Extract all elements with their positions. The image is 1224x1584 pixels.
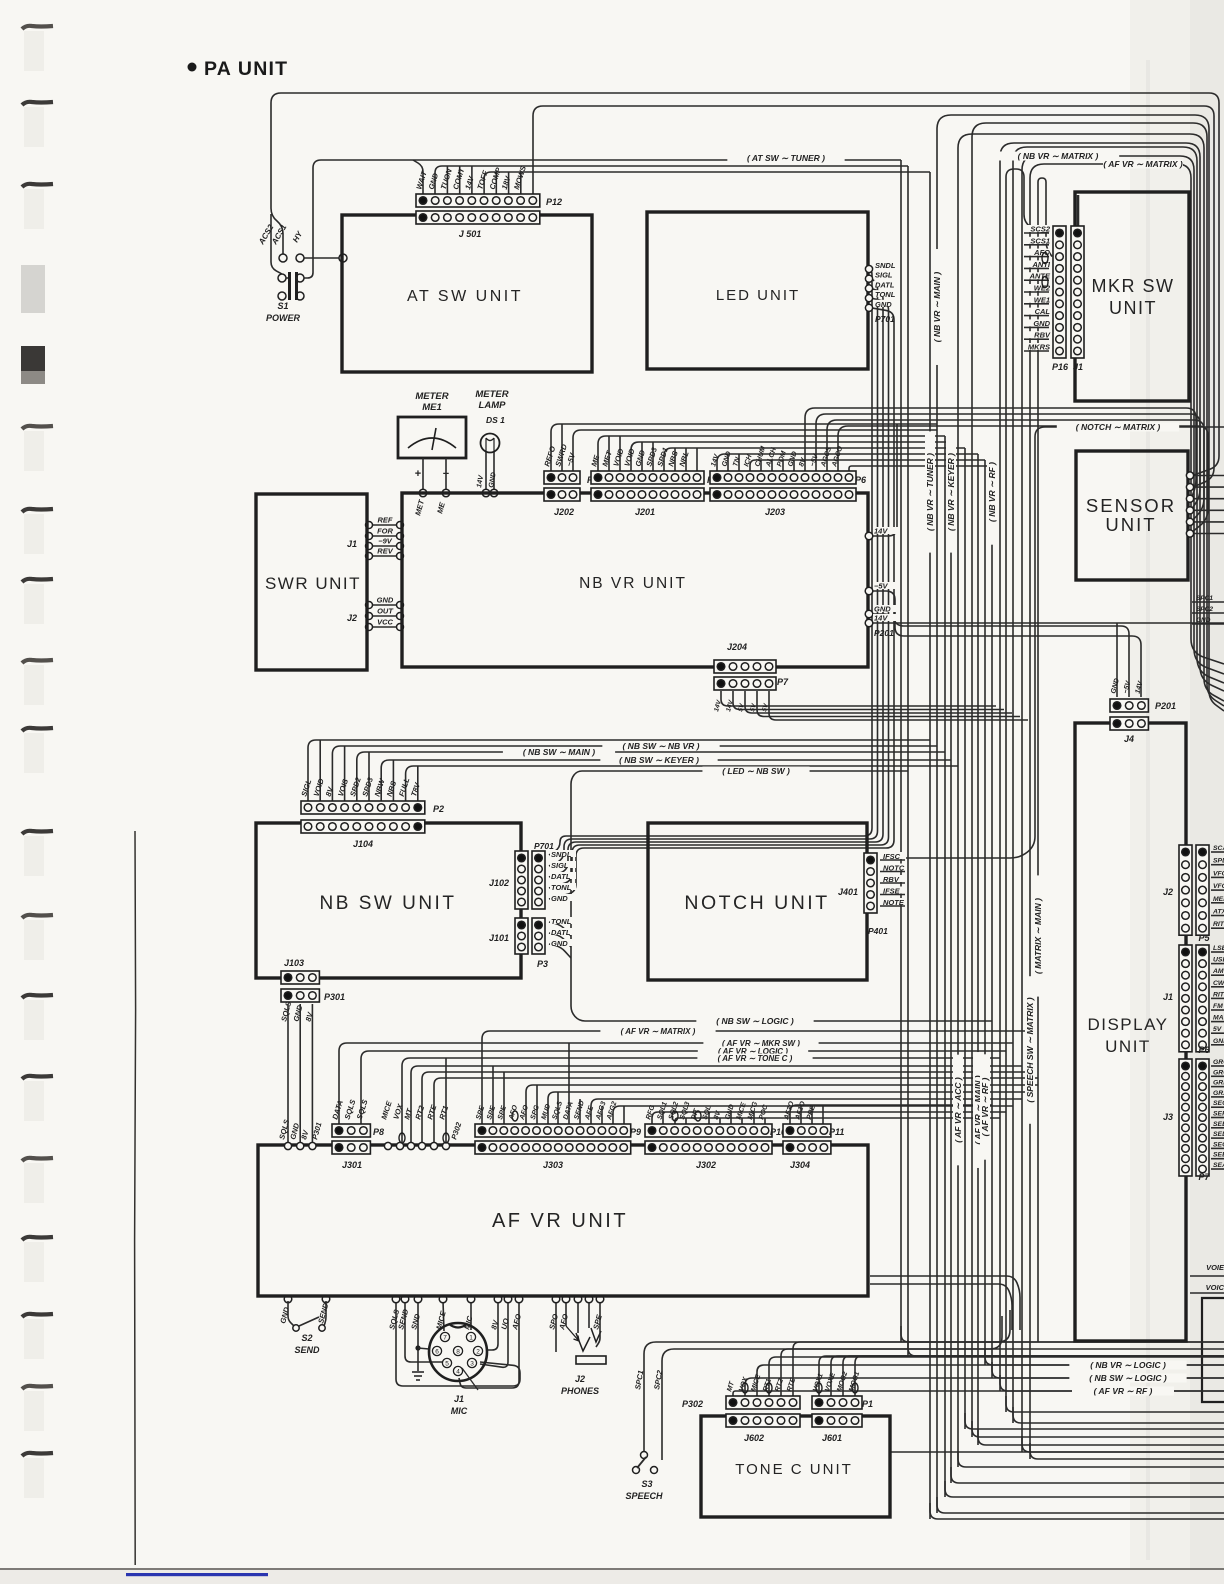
svg-text:( NB VR ∼ KEYER ): ( NB VR ∼ KEYER ) <box>946 453 956 531</box>
svg-text:RIT: RIT <box>1213 991 1224 998</box>
svg-text:SEB: SEB <box>1213 1152 1224 1159</box>
svg-text:TONL: TONL <box>551 883 572 892</box>
svg-text:SIGL: SIGL <box>551 861 569 870</box>
svg-text:J102: J102 <box>489 878 509 888</box>
svg-text:6: 6 <box>435 1349 439 1356</box>
svg-text:SIGL: SIGL <box>875 271 893 280</box>
svg-text:SNDL: SNDL <box>875 261 896 270</box>
svg-text:MKR SW: MKR SW <box>1092 276 1175 296</box>
svg-text:SEF: SEF <box>1213 1111 1224 1118</box>
svg-text:MKRS: MKRS <box>1028 343 1050 352</box>
svg-text:GRC: GRC <box>1213 1069 1224 1076</box>
svg-text:J602: J602 <box>744 1433 764 1443</box>
svg-text:IFSE: IFSE <box>883 887 901 896</box>
svg-text:AM: AM <box>1212 968 1224 975</box>
svg-text:J1: J1 <box>1073 362 1083 372</box>
svg-text:GND: GND <box>875 300 892 309</box>
svg-text:( AF VR ∼ RF ): ( AF VR ∼ RF ) <box>980 1077 990 1136</box>
svg-text:MEM: MEM <box>1213 896 1224 903</box>
svg-text:CW: CW <box>1213 980 1224 987</box>
svg-text:J103: J103 <box>284 958 304 968</box>
svg-text:14V: 14V <box>874 527 888 536</box>
svg-text:P2: P2 <box>433 804 444 814</box>
svg-text:J3: J3 <box>1163 1112 1173 1122</box>
svg-text:GND: GND <box>1196 617 1211 624</box>
svg-text:( SPEECH SW ∼ MATRIX ): ( SPEECH SW ∼ MATRIX ) <box>1025 997 1035 1102</box>
svg-text:VOIE: VOIE <box>1206 1263 1224 1272</box>
svg-text:S3: S3 <box>641 1479 652 1489</box>
svg-text:P701: P701 <box>875 314 895 324</box>
svg-text:ATX: ATX <box>1212 909 1224 916</box>
svg-text:P8: P8 <box>373 1127 384 1137</box>
svg-text:PA UNIT: PA UNIT <box>204 58 288 80</box>
svg-text:SPC1: SPC1 <box>1196 595 1213 602</box>
svg-text:TONE C UNIT: TONE C UNIT <box>735 1461 853 1478</box>
svg-text:CAL: CAL <box>1035 307 1051 316</box>
svg-text:SENSOR: SENSOR <box>1086 495 1176 516</box>
svg-text:RBV: RBV <box>1034 331 1051 340</box>
svg-text:J204: J204 <box>727 642 747 652</box>
svg-text:SEG: SEG <box>1213 1100 1224 1107</box>
svg-text:2: 2 <box>476 1349 480 1356</box>
svg-text:RBV: RBV <box>883 875 900 884</box>
svg-text:J1: J1 <box>347 539 357 549</box>
svg-text:J2: J2 <box>575 1374 585 1384</box>
svg-text:AT SW UNIT: AT SW UNIT <box>407 288 523 305</box>
svg-text:FM: FM <box>1213 1003 1223 1010</box>
svg-text:−5V: −5V <box>874 582 889 591</box>
svg-text:( AF VR ∼ MATRIX ): ( AF VR ∼ MATRIX ) <box>1103 159 1183 169</box>
svg-text:SEA: SEA <box>1213 1162 1224 1169</box>
svg-text:GND: GND <box>1213 1038 1224 1045</box>
svg-text:LED UNIT: LED UNIT <box>716 287 800 304</box>
svg-text:P201: P201 <box>874 628 894 638</box>
svg-text:METER: METER <box>415 391 448 402</box>
svg-text:P7: P7 <box>1198 1172 1210 1182</box>
svg-text:NOTCH UNIT: NOTCH UNIT <box>684 892 829 914</box>
svg-text:OUT: OUT <box>377 607 394 616</box>
svg-text:( NB SW ∼ KEYER ): ( NB SW ∼ KEYER ) <box>619 755 699 765</box>
svg-text:USB: USB <box>1213 957 1224 964</box>
svg-text:3: 3 <box>470 1361 474 1368</box>
svg-text:( NB VR ∼ RF ): ( NB VR ∼ RF ) <box>987 462 997 522</box>
svg-text:DISPLAY: DISPLAY <box>1087 1015 1168 1034</box>
svg-text:NB VR UNIT: NB VR UNIT <box>579 575 687 592</box>
svg-text:( NB SW ∼ MAIN ): ( NB SW ∼ MAIN ) <box>523 747 595 757</box>
svg-text:J203: J203 <box>765 507 785 517</box>
svg-text:J304: J304 <box>790 1160 810 1170</box>
svg-text:( NB SW ∼ NB VR ): ( NB SW ∼ NB VR ) <box>622 741 699 751</box>
svg-text:( NB VR ∼ LOGIC ): ( NB VR ∼ LOGIC ) <box>1090 1360 1166 1370</box>
svg-text:( AF VR ∼ RF ): ( AF VR ∼ RF ) <box>1094 1386 1153 1396</box>
svg-text:P11: P11 <box>829 1127 844 1137</box>
svg-text:J 501: J 501 <box>459 229 482 239</box>
svg-text:J302: J302 <box>696 1160 716 1170</box>
svg-text:5V: 5V <box>1213 1026 1223 1033</box>
svg-text:TONL: TONL <box>551 917 572 926</box>
svg-text:P301: P301 <box>324 992 345 1002</box>
svg-text:S1: S1 <box>277 301 288 311</box>
svg-text:VCC: VCC <box>377 618 393 627</box>
svg-text:P3: P3 <box>537 959 548 969</box>
svg-text:1: 1 <box>469 1335 473 1342</box>
svg-text:RIT: RIT <box>1213 921 1224 928</box>
svg-text:REV: REV <box>377 547 393 556</box>
svg-text:UNIT: UNIT <box>1105 514 1156 535</box>
svg-text:SEND: SEND <box>294 1345 320 1355</box>
svg-text:SWR UNIT: SWR UNIT <box>265 574 361 593</box>
svg-text:SCS1: SCS1 <box>1030 236 1050 245</box>
svg-text:SPC2: SPC2 <box>1196 606 1213 613</box>
svg-text:( MATRIX ∼ MAIN ): ( MATRIX ∼ MAIN ) <box>1033 898 1043 974</box>
svg-text:( AF VR ∼ TONE C ): ( AF VR ∼ TONE C ) <box>718 1054 793 1063</box>
svg-text:P302: P302 <box>682 1399 703 1409</box>
svg-text:P1: P1 <box>862 1399 873 1409</box>
svg-text:UNIT: UNIT <box>1105 1037 1151 1056</box>
svg-text:−9V: −9V <box>378 537 393 546</box>
svg-text:WE1: WE1 <box>1034 295 1050 304</box>
svg-text:J601: J601 <box>822 1433 842 1443</box>
svg-text:GRO: GRO <box>1213 1059 1224 1066</box>
svg-text:SED: SED <box>1213 1131 1224 1138</box>
svg-text:( AT SW ∼ TUNER ): ( AT SW ∼ TUNER ) <box>747 153 825 163</box>
svg-text:SPL: SPL <box>1213 858 1224 865</box>
svg-text:J101: J101 <box>489 933 509 943</box>
svg-text:GRB: GRB <box>1213 1080 1224 1087</box>
svg-text:DATL: DATL <box>551 872 571 881</box>
svg-text:VOIC: VOIC <box>1206 1283 1224 1292</box>
svg-text:J2: J2 <box>1163 887 1173 897</box>
svg-text:SCA: SCA <box>1213 845 1224 852</box>
svg-text:J201: J201 <box>635 507 655 517</box>
svg-text:GND: GND <box>551 894 568 903</box>
svg-text:P401: P401 <box>868 926 888 936</box>
svg-text:ME1: ME1 <box>422 402 442 413</box>
svg-text:J1: J1 <box>1163 992 1173 1002</box>
svg-text:S2: S2 <box>301 1333 312 1343</box>
svg-text:VFO: VFO <box>1213 883 1224 890</box>
svg-text:REF: REF <box>378 516 393 525</box>
svg-text:8: 8 <box>456 1349 460 1356</box>
svg-text:UNIT: UNIT <box>1109 298 1157 318</box>
svg-text:PHONES: PHONES <box>561 1386 599 1396</box>
svg-text:P7: P7 <box>777 677 789 687</box>
svg-text:J202: J202 <box>554 507 574 517</box>
svg-text:SEE: SEE <box>1213 1121 1224 1128</box>
svg-text:P12: P12 <box>546 197 562 207</box>
svg-text:SCS2: SCS2 <box>1030 225 1050 234</box>
svg-text:GND: GND <box>377 596 394 605</box>
svg-text:( NB SW ∼ LOGIC ): ( NB SW ∼ LOGIC ) <box>716 1016 794 1026</box>
svg-text:GND: GND <box>874 605 891 614</box>
svg-text:( AF VR ∼ ACC ): ( AF VR ∼ ACC ) <box>953 1077 963 1143</box>
svg-text:NB SW UNIT: NB SW UNIT <box>320 893 457 914</box>
svg-text:P6: P6 <box>855 475 867 485</box>
svg-text:( NB VR ∼ MATRIX ): ( NB VR ∼ MATRIX ) <box>1018 151 1099 161</box>
svg-text:P9: P9 <box>630 1127 641 1137</box>
svg-text:GND: GND <box>1033 319 1050 328</box>
svg-text:POWER: POWER <box>266 313 301 323</box>
svg-text:P6: P6 <box>1198 1045 1210 1055</box>
svg-text:( NOTCH ∼ MATRIX ): ( NOTCH ∼ MATRIX ) <box>1076 422 1161 432</box>
svg-text:J2: J2 <box>347 613 357 623</box>
svg-text:TONL: TONL <box>875 290 896 299</box>
svg-text:FOR: FOR <box>377 527 393 536</box>
svg-text:( LED ∼ NB SW ): ( LED ∼ NB SW ) <box>722 766 790 776</box>
svg-text:DATL: DATL <box>875 280 895 289</box>
svg-text:J104: J104 <box>353 839 373 849</box>
svg-text:J4: J4 <box>1124 734 1134 744</box>
svg-text:SPEECH: SPEECH <box>625 1491 663 1501</box>
svg-text:SEC: SEC <box>1213 1141 1224 1148</box>
svg-text:NOTC: NOTC <box>883 864 905 873</box>
svg-text:+: + <box>415 468 421 480</box>
svg-text:( NB SW ∼ LOGIC ): ( NB SW ∼ LOGIC ) <box>1089 1373 1167 1383</box>
svg-text:DATL: DATL <box>551 928 571 937</box>
svg-text:SNDL: SNDL <box>551 850 572 859</box>
svg-text:DS 1: DS 1 <box>486 415 505 425</box>
svg-text:( NB VR ∼ TUNER ): ( NB VR ∼ TUNER ) <box>925 453 935 531</box>
svg-text:4: 4 <box>456 1369 460 1376</box>
svg-text:J303: J303 <box>543 1160 563 1170</box>
svg-text:IFSC: IFSC <box>883 852 901 861</box>
svg-text:METER: METER <box>475 389 508 400</box>
svg-text:P201: P201 <box>1155 701 1176 711</box>
svg-text:LSB: LSB <box>1213 945 1224 952</box>
svg-text:VFO: VFO <box>1213 870 1224 877</box>
svg-text:GND: GND <box>551 939 568 948</box>
svg-text:MIC: MIC <box>451 1406 468 1416</box>
svg-text:P16: P16 <box>1052 362 1069 372</box>
svg-text:AF VR UNIT: AF VR UNIT <box>492 1210 628 1232</box>
svg-text:GRA: GRA <box>1213 1090 1224 1097</box>
svg-text:( NB VR ∼ MAIN ): ( NB VR ∼ MAIN ) <box>932 272 942 343</box>
svg-text:MAR: MAR <box>1213 1015 1224 1022</box>
svg-text:J1: J1 <box>454 1394 464 1404</box>
svg-text:NOTE: NOTE <box>883 898 905 907</box>
svg-text:5: 5 <box>445 1361 449 1368</box>
svg-text:14V: 14V <box>874 614 888 623</box>
svg-text:J301: J301 <box>342 1160 362 1170</box>
svg-text:( AF VR ∼ MATRIX ): ( AF VR ∼ MATRIX ) <box>621 1027 696 1036</box>
svg-text:P5: P5 <box>1198 933 1210 943</box>
svg-text:LAMP: LAMP <box>479 400 507 411</box>
svg-text:J401: J401 <box>838 887 858 897</box>
svg-text:7: 7 <box>443 1335 447 1342</box>
